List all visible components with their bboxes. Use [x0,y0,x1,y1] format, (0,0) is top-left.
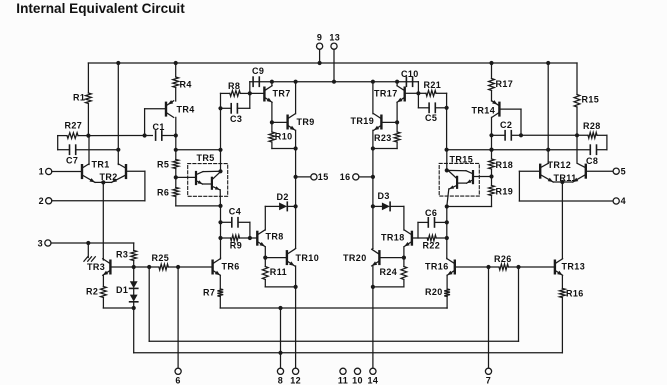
wire pin8 drop [280,308,282,368]
pin 13 [329,32,340,83]
svg-text:C8: C8 [586,156,598,166]
resistor R22 [412,235,447,250]
wire D3 to TR18 collector [403,206,405,230]
svg-text:R26: R26 [494,254,512,264]
svg-text:TR9: TR9 [297,117,315,127]
transistor TR13 [555,259,585,276]
transistor TR16 [425,259,455,276]
svg-text:D3: D3 [378,191,390,201]
svg-text:8: 8 [278,376,283,385]
wire TR10 collector up [295,247,296,250]
wire TR13 collector up [561,183,563,258]
svg-text:R7: R7 [203,287,215,297]
svg-text:2: 2 [39,196,44,206]
svg-text:TR3: TR3 [87,262,105,272]
transistor TR1 [82,159,110,182]
svg-text:C7: C7 [66,156,78,166]
svg-text:R21: R21 [424,80,442,90]
svg-text:R3: R3 [116,250,128,260]
wire TR4 collector [175,117,177,135]
transistor TR5b [212,172,221,190]
pin 4 [519,196,626,206]
wire R6 bottom [176,204,223,208]
capacitor C9 [252,66,264,86]
svg-text:10: 10 [352,376,363,385]
capacitor C7 [58,145,121,166]
pin 9 [317,32,323,65]
resistor R15 [574,63,599,163]
resistor R10 [269,122,298,150]
svg-text:TR10: TR10 [296,253,320,263]
node TR5 collectors [218,169,222,173]
resistor R2 [86,275,136,310]
wire TR20 emitter down [372,266,374,287]
svg-text:C1: C1 [153,122,165,132]
ground [84,243,95,261]
wire TR4 base loop [145,109,166,136]
transistor TR9 [288,114,315,131]
wire C1 row [88,133,152,137]
wire R8 to TR7 base [250,92,265,94]
pin 8 [277,368,283,385]
svg-text:TR4: TR4 [177,104,195,114]
svg-text:C2: C2 [500,120,512,130]
pin 2 [39,171,145,206]
wire TR12 base loop [519,171,540,201]
svg-text:R19: R19 [496,186,514,196]
resistor R28 [583,121,607,150]
resistor R16 [560,275,584,353]
wire TR12 collector up [546,61,550,163]
capacitor C3 [221,93,250,123]
svg-text:7: 7 [486,376,491,385]
svg-text:TR12: TR12 [548,160,572,170]
transistor TR12 [540,160,571,182]
wire to pin 14 [372,287,374,368]
svg-text:TR7: TR7 [273,88,291,98]
transistor TR15b [449,171,458,189]
svg-text:R5: R5 [157,159,169,169]
resistor R6 [157,177,179,206]
wire TR2 collector to rail [116,61,120,165]
svg-text:R28: R28 [583,121,601,131]
transistor TR2 [100,164,127,183]
wire TR5 base [176,176,196,178]
transistor TR8 [257,230,283,247]
node R1/R27/C1 [86,134,90,138]
wire R19 bottom [445,204,492,208]
wire TR5 node down [218,206,222,258]
diode D3 [373,191,404,210]
transistor TR5a [196,171,221,184]
resistor R1 [73,63,91,136]
svg-text:16: 16 [340,172,351,182]
svg-text:TR8: TR8 [266,231,284,241]
diode D2 [277,192,296,211]
wire TR17 base [405,92,419,94]
wire TR17 collector [395,80,399,86]
pin 14 [367,368,378,385]
wire TR17e to TR19 base [381,121,397,123]
svg-text:R15: R15 [582,94,600,104]
transistor TR14 [472,100,500,117]
svg-text:C10: C10 [401,69,419,79]
wire TR14 collector down [489,117,493,151]
svg-text:TR18: TR18 [381,232,405,242]
svg-text:11: 11 [338,376,348,385]
transistor TR19 [351,114,382,131]
svg-text:1: 1 [39,167,44,177]
svg-text:TR20: TR20 [343,253,367,263]
svg-text:4: 4 [621,196,626,206]
transistor TR11 [554,163,586,183]
capacitor C10 [401,69,419,86]
wire TR15a emitter to TR15b base [457,182,466,184]
wire TR16 collector up [446,257,448,260]
wire R25 to TR6 base [178,266,213,268]
wire bottom rail 2 [134,351,563,355]
capacitor C1 [153,122,178,140]
wire R9 to TR8 base [250,237,257,239]
svg-text:R4: R4 [180,79,192,89]
wire TR15 collector up [446,150,448,171]
dashed box TR5 [188,153,228,196]
svg-text:14: 14 [367,376,378,385]
resistor R26 [489,254,521,270]
svg-text:TR6: TR6 [222,261,240,271]
wire R27-C7 left [57,136,59,150]
svg-text:R6: R6 [157,187,169,197]
wire TR17 emitter down [395,102,399,124]
pin 10 [352,368,363,385]
resistor R17 [489,61,514,101]
wire TR19 emitter down [371,130,375,248]
wire TR4 col to R5 [174,136,178,152]
svg-text:R2: R2 [86,286,98,296]
wire TR15 node down [445,207,449,259]
svg-text:R24: R24 [380,267,398,277]
wire D1 bottom down [133,308,135,353]
wire TR14 base loop [499,109,523,137]
svg-text:R17: R17 [496,79,514,89]
resistor R4 [173,61,192,101]
resistor R5 [157,150,179,180]
wire TR9 collector up [294,80,298,114]
pin 6 [175,368,181,385]
svg-text:D1: D1 [116,285,128,295]
node TR15 collectors [445,168,449,172]
transistor TR4 [166,100,195,117]
transistor TR6 [213,259,240,276]
svg-text:R11: R11 [270,267,287,277]
transistor TR18 [381,230,412,247]
svg-text:TR14: TR14 [472,105,496,115]
svg-text:R23: R23 [374,133,392,143]
svg-text:R16: R16 [566,288,584,298]
wire TR8 collector up [265,206,279,230]
wire R21C5 node down [445,93,449,151]
svg-text:R20: R20 [425,287,443,297]
resistor R11 [262,258,297,289]
svg-text:C3: C3 [230,114,242,124]
wire TR8e to TR10 base [265,257,287,259]
capacitor C8 [447,145,599,166]
svg-text:6: 6 [175,376,180,385]
wire to pin 12 [295,287,297,368]
transistor TR17 [374,86,405,103]
svg-text:TR17: TR17 [374,88,398,98]
svg-text:9: 9 [317,32,322,42]
dashed box TR15 [439,154,479,196]
wire TR16 base row [455,265,491,269]
svg-text:TR13: TR13 [562,261,586,271]
wire TR5 emitter down [219,190,221,206]
pin 7 [485,368,491,385]
transistor TR3 [87,259,110,276]
pin 3 [38,238,134,248]
wire R1 node to TR1 collector [88,136,90,165]
capacitor C6 [418,208,447,238]
svg-text:R9: R9 [230,240,242,250]
pin 11 [338,368,348,385]
svg-text:3: 3 [38,238,43,248]
svg-text:13: 13 [329,32,340,42]
svg-text:TR15: TR15 [450,154,474,164]
pin 1 [39,167,82,177]
title [16,1,185,16]
wire y150 TR4-TR5 [176,148,223,152]
wire top supply rail [88,62,577,64]
resistor R21 [418,80,446,96]
svg-text:TR16: TR16 [425,261,449,271]
resistor R7 [203,275,223,308]
wire shared emitters right [553,180,573,184]
svg-text:C9: C9 [252,66,264,76]
wire TR7 collector [270,80,274,86]
capacitor C5 [418,93,448,123]
svg-text:C5: C5 [425,113,437,123]
svg-text:R10: R10 [275,132,293,142]
pin 16 [340,172,373,182]
wire TR10 emitter down [295,266,297,287]
resistor R19 [489,177,514,207]
transistor TR7 [264,86,290,103]
resistor R25 [149,253,180,270]
wire TR6 collector up [219,257,221,260]
wire TR9 emitter down [294,130,298,248]
wire second rail [250,81,419,83]
pin 15 [296,172,329,182]
resistor R24 [371,258,407,289]
transistor TR10 [287,249,319,266]
wire C10 drop [416,82,420,96]
transistor TR15a [447,170,473,183]
wire emitters down to TR3 [102,182,104,259]
wire TR18e to TR20 base [379,257,404,259]
wire TR15 emitter down [447,189,449,207]
resistor R18 [489,150,514,179]
wire left node vertical [218,93,222,171]
wire pin6 drop [177,267,179,368]
capacitor C2 [492,120,522,140]
pin 5 [586,167,626,177]
wire TR7 emitter down [270,102,274,124]
svg-text:TR5: TR5 [197,153,215,163]
svg-text:TR1: TR1 [92,159,110,169]
capacitor C4 [221,206,250,238]
wire TR15 base [473,176,492,178]
wire TR19 collector up [371,80,375,114]
wire TR7e to TR9 base [272,121,288,123]
wire TR20 collector up [371,247,374,250]
resistor R20 [425,275,450,308]
svg-text:12: 12 [290,376,301,385]
wire R26 to TR13 base [519,266,555,268]
wire TR5a emitter to TR5b base [203,183,212,185]
svg-text:R8: R8 [228,81,240,91]
wire shared emitters [95,180,112,184]
wire TR8 emitter down [263,247,267,260]
wire bottom rail 1 [149,267,518,341]
resistor R3 [116,243,137,269]
resistor R27 [58,121,89,139]
svg-text:C6: C6 [425,208,437,218]
wire ground rail mid [220,306,447,310]
wire TR3 collector up [102,258,104,261]
svg-text:TR19: TR19 [351,116,375,126]
svg-text:R22: R22 [423,240,441,250]
svg-text:R27: R27 [65,121,83,131]
wire TR3 base row [110,265,151,269]
resistor R9 [221,235,252,250]
resistor R23 [371,122,400,150]
wire C2 row to R28 [521,133,588,137]
pin 12 [290,368,301,385]
svg-text:D2: D2 [277,192,289,202]
resistor R8 [221,81,252,96]
wire TR18 emitter down [402,247,406,260]
svg-text:R25: R25 [152,253,170,263]
svg-text:R18: R18 [496,160,514,170]
svg-text:R1: R1 [73,93,85,103]
svg-text:15: 15 [318,172,329,182]
wire pin7 drop [488,267,490,368]
wire C9 drop [249,82,251,94]
svg-text:5: 5 [621,167,626,177]
svg-text:C4: C4 [229,206,241,216]
svg-text:Internal Equivalent Circuit: Internal Equivalent Circuit [16,1,185,16]
transistor TR20 [343,249,379,266]
diode D1 [116,267,138,308]
